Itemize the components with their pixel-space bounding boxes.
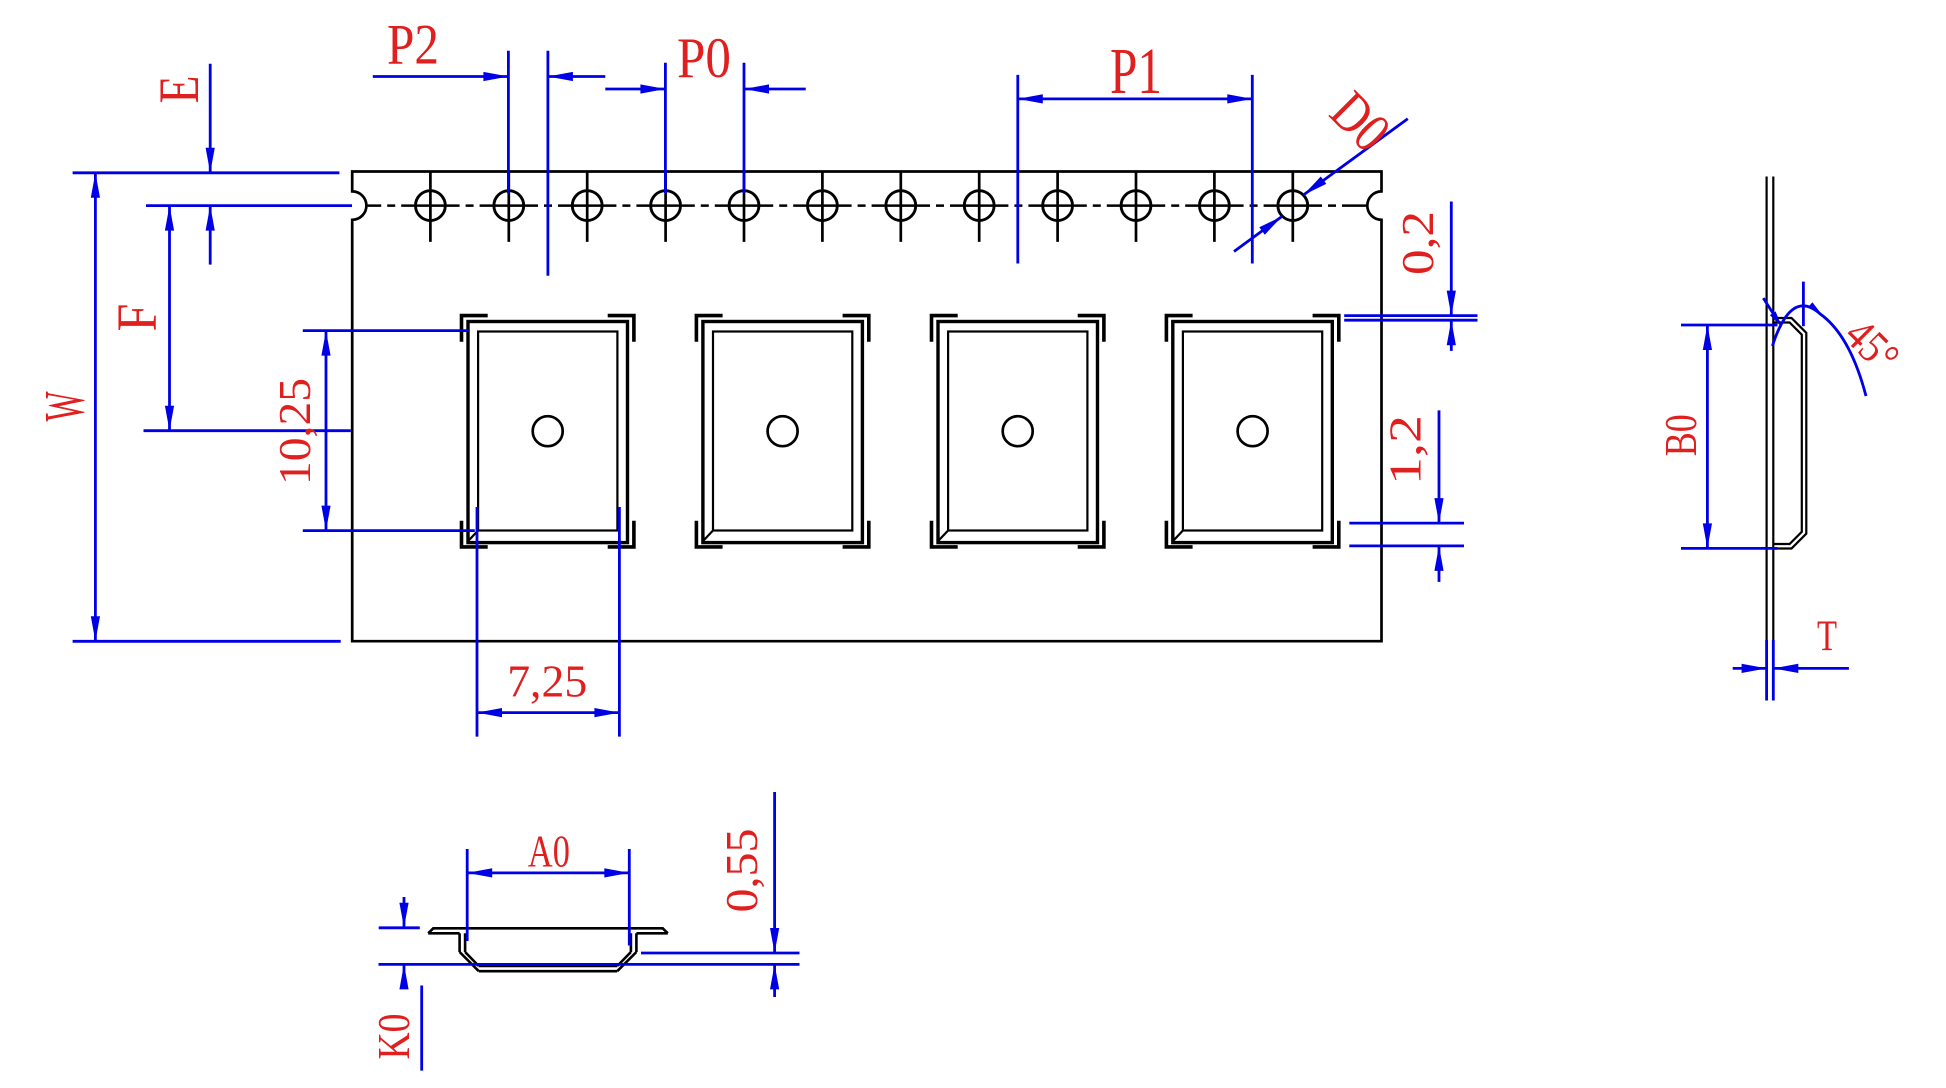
dimension D0 leader with arrows	[1234, 119, 1408, 252]
dimension P1 extension lines	[1018, 75, 1253, 264]
label F	[106, 304, 169, 332]
dimension T line with arrows	[1733, 664, 1849, 673]
dimension P0 extension lines	[665, 63, 744, 193]
dimension W extension lines	[73, 173, 341, 642]
svg-text:10,25: 10,25	[269, 378, 320, 485]
svg-text:0,55: 0,55	[716, 829, 767, 913]
label 10,25	[269, 378, 320, 485]
side view pocket profile	[1773, 318, 1806, 549]
label 0,2	[1392, 211, 1443, 275]
sprocket hole vertical centrelines	[430, 172, 1292, 242]
label 1,2	[1380, 415, 1431, 485]
svg-text:0,2: 0,2	[1392, 211, 1443, 275]
dimension W line with arrows	[91, 173, 100, 642]
dimension 10,25 line with arrows	[321, 331, 330, 531]
svg-text:B0: B0	[1655, 414, 1706, 456]
label A0	[528, 826, 570, 877]
dimension B0 extension lines	[1681, 325, 1778, 548]
svg-text:K0: K0	[368, 1014, 419, 1060]
label T	[1817, 613, 1837, 660]
dimension E line with arrows	[206, 64, 215, 265]
svg-text:E: E	[148, 76, 211, 104]
dimension 7,25 line with arrows	[477, 708, 619, 717]
dimension E hole centreline extension	[146, 204, 352, 207]
dimension 1,2 extension lines	[1349, 523, 1464, 546]
dimension 45deg leader and arc	[1763, 282, 1866, 396]
dimension 0,2 extension lines	[1344, 316, 1477, 321]
dimension K0 extension line	[379, 926, 420, 929]
side view tape strip	[1767, 177, 1774, 697]
svg-text:T: T	[1817, 613, 1837, 660]
dimension P0 line with arrows	[605, 84, 805, 93]
svg-text:P2: P2	[387, 14, 439, 77]
dimension F line with arrows	[165, 206, 174, 431]
dimension P2 line with arrows	[373, 72, 606, 81]
pocket cross-section (bottom view)	[428, 928, 668, 971]
label B0	[1655, 414, 1706, 456]
label 7,25	[507, 656, 587, 707]
dimension 0,2 line with arrows	[1447, 202, 1456, 351]
label 45deg	[1835, 308, 1909, 382]
dimension A0 extension lines	[467, 849, 629, 946]
svg-text:A0: A0	[528, 826, 570, 877]
label K0 leader	[420, 986, 423, 1071]
label 0,55	[716, 829, 767, 913]
dimension 0,55 extension lines	[379, 953, 800, 964]
component pocket 3	[932, 316, 1104, 547]
dimension 10,25 extension lines	[303, 331, 475, 531]
dimension B0 line with arrows	[1703, 325, 1712, 548]
dimension F pocket centreline extension	[144, 429, 351, 432]
sprocket holes row D0	[416, 191, 1308, 221]
dimension A0 line with arrows	[467, 868, 629, 877]
dimension 0,55 line with arrows	[770, 792, 779, 997]
svg-text:7,25: 7,25	[507, 656, 587, 707]
svg-text:P0: P0	[677, 27, 731, 90]
label D0	[1318, 80, 1402, 164]
svg-text:1,2: 1,2	[1380, 415, 1431, 485]
svg-text:F: F	[106, 304, 169, 332]
svg-text:P1: P1	[1110, 35, 1162, 108]
dimension P2 extension lines	[508, 51, 548, 276]
component pocket 1	[462, 316, 634, 547]
sprocket hole horizontal centreline	[367, 204, 1368, 207]
tape outline (top view) with edge notches	[352, 172, 1381, 642]
dimension T extension lines	[1767, 640, 1774, 701]
label W	[33, 391, 96, 421]
label K0	[368, 1014, 419, 1060]
dimension 1,2 line with arrows	[1434, 410, 1443, 582]
label P2	[387, 14, 439, 77]
dimension K0 line with arrows	[399, 897, 408, 989]
label E	[148, 76, 211, 104]
component pocket 2	[696, 316, 868, 547]
dimension 7,25 extension lines	[477, 507, 619, 737]
svg-text:W: W	[33, 391, 96, 421]
component pocket 4	[1166, 316, 1338, 547]
dimension P1 line with arrows	[1018, 94, 1253, 103]
label P0	[677, 27, 731, 90]
label P1	[1110, 35, 1162, 108]
